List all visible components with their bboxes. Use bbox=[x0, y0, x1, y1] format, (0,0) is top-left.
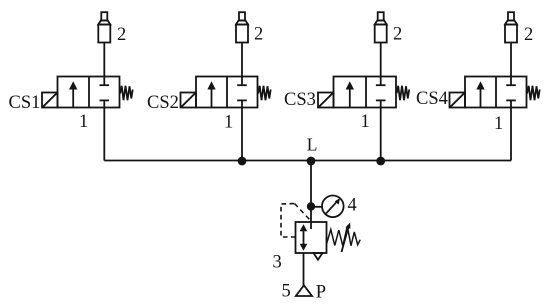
return spring of CS3 bbox=[397, 86, 410, 100]
valve CS3 closed-position blocked ports (T symbols) bbox=[376, 77, 386, 108]
wire CS4 port 2 to fitting bbox=[510, 43, 512, 77]
return spring of CS2 bbox=[258, 86, 271, 100]
wire node L down to regulator bbox=[310, 161, 312, 230]
regulator adjusting spring bbox=[327, 226, 361, 246]
valve CS1 body (2/2-way) bbox=[58, 77, 120, 108]
svg-text:2: 2 bbox=[524, 25, 533, 45]
port 2 fitting (nozzle) of CS4 bbox=[505, 12, 517, 42]
junction CS2/manifold bbox=[238, 157, 247, 166]
svg-text:CS1: CS1 bbox=[9, 93, 41, 113]
valve CS2 open-position flow arrow bbox=[207, 81, 215, 107]
port 2 fitting (nozzle) of CS1 bbox=[98, 12, 110, 42]
port 2 fitting (nozzle) of CS3 bbox=[375, 12, 387, 42]
regulator spring adjustment arrow bbox=[342, 222, 351, 252]
valve CS4 open-position flow arrow bbox=[476, 81, 484, 107]
svg-text:1: 1 bbox=[361, 112, 370, 132]
svg-text:1: 1 bbox=[224, 113, 233, 133]
manifold wire (net L horizontal) bbox=[104, 160, 511, 162]
wire CS2 port 2 to fitting bbox=[241, 43, 243, 77]
svg-text:5: 5 bbox=[282, 282, 291, 302]
pressure gauge 4 bbox=[322, 196, 344, 218]
valve CS2 body (2/2-way) bbox=[196, 77, 258, 108]
wire CS3 port 1 down to manifold bbox=[380, 108, 382, 161]
wire CS1 port 1 down to manifold bbox=[103, 108, 105, 161]
solenoid coil of CS3 bbox=[318, 93, 334, 108]
wire regulator to supply port P bbox=[303, 253, 305, 286]
valve CS3 body (2/2-way) bbox=[334, 77, 397, 108]
svg-text:2: 2 bbox=[117, 25, 126, 45]
svg-text:CS2: CS2 bbox=[147, 93, 179, 113]
junction CS3/manifold bbox=[376, 157, 385, 166]
solenoid coil of CS2 bbox=[181, 93, 197, 108]
wire to pressure gauge bbox=[311, 206, 322, 208]
svg-text:L: L bbox=[307, 135, 318, 155]
valve CS4 closed-position blocked ports (T symbols) bbox=[506, 77, 516, 108]
return spring of CS4 bbox=[527, 86, 540, 100]
valve CS1 closed-position blocked ports (T symbols) bbox=[100, 77, 110, 108]
valve CS4 body (2/2-way) bbox=[465, 77, 527, 108]
valve CS1 open-position flow arrow bbox=[69, 81, 77, 107]
wire CS3 port 2 to fitting bbox=[380, 43, 382, 77]
port 2 fitting (nozzle) of CS2 bbox=[236, 12, 248, 42]
pressure regulator 3 body bbox=[296, 222, 327, 253]
svg-text:1: 1 bbox=[494, 114, 503, 134]
svg-text:CS4: CS4 bbox=[416, 89, 448, 109]
supply source triangle P bbox=[296, 285, 312, 296]
wire CS4 port 1 down to manifold bbox=[510, 108, 512, 161]
junction node L bbox=[307, 157, 316, 166]
solenoid coil of CS1 bbox=[42, 93, 58, 108]
regulator pilot line (dashed) bbox=[281, 204, 310, 238]
svg-text:1: 1 bbox=[79, 112, 88, 132]
regulator relief vent triangle bbox=[314, 253, 323, 260]
valve CS2 closed-position blocked ports (T symbols) bbox=[237, 77, 247, 108]
svg-text:2: 2 bbox=[254, 25, 263, 45]
svg-text:2: 2 bbox=[393, 25, 402, 45]
wire CS2 port 1 down to manifold bbox=[241, 108, 243, 161]
return spring of CS1 bbox=[120, 86, 133, 100]
regulator flow path with double arrows bbox=[300, 224, 308, 251]
solenoid coil of CS4 bbox=[450, 93, 466, 108]
svg-text:CS3: CS3 bbox=[284, 90, 316, 110]
wire CS1 port 2 to fitting bbox=[103, 43, 105, 77]
svg-text:3: 3 bbox=[273, 253, 282, 273]
svg-text:4: 4 bbox=[348, 196, 357, 216]
valve CS3 open-position flow arrow bbox=[346, 81, 354, 107]
svg-text:P: P bbox=[316, 283, 326, 303]
junction gauge branch bbox=[307, 202, 315, 210]
